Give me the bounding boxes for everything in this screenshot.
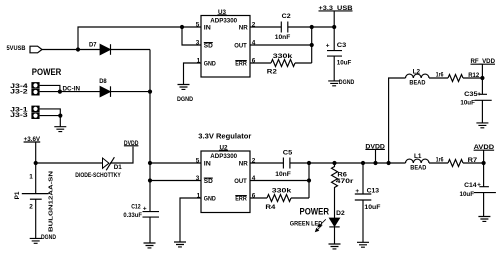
node RF_VDD junction [480, 76, 484, 80]
resistor R6 [332, 163, 354, 189]
svg-text:C3: C3 [337, 42, 347, 49]
net label DVDD (rail) [365, 143, 385, 163]
svg-text:R2: R2 [267, 69, 277, 76]
inductor L2 [406, 68, 430, 86]
wire U3 NR to C2 [250, 26, 281, 28]
resistor R2 [267, 53, 295, 76]
svg-text:R4: R4 [265, 204, 275, 211]
svg-text:C12: C12 [131, 204, 141, 211]
svg-text:D7: D7 [89, 42, 97, 49]
svg-text:J3-3: J3-3 [10, 113, 28, 119]
net label RF_VDD [471, 58, 496, 78]
svg-text:0.33uF: 0.33uF [123, 212, 142, 219]
wire R6 to D2 [334, 189, 336, 218]
ground U2 [174, 242, 186, 247]
node DC-IN junction [58, 90, 62, 94]
wire L2 to R12 [429, 77, 448, 79]
pin 5 IN [196, 157, 211, 167]
node bus-U2 SD junction [148, 178, 152, 182]
net label AVDD [474, 144, 495, 163]
connector tag 5VUSB [7, 45, 43, 53]
capacitor C35 [460, 78, 491, 123]
pin 4 OUT [234, 39, 256, 49]
svg-text:1r6: 1r6 [436, 71, 444, 78]
node bus-D8 junction [148, 90, 152, 94]
pin 6 ERR [235, 57, 256, 67]
wire J3-2 to DC-IN node [40, 91, 60, 93]
ground C35 [476, 123, 488, 128]
op-amp U3 ADP3300 regulator body [201, 10, 250, 77]
wire 5VUSB to D7 [42, 49, 100, 51]
svg-text:10uF: 10uF [460, 99, 475, 106]
pin 2 NR [239, 21, 256, 31]
svg-text:NR: NR [239, 25, 248, 32]
svg-text:3: 3 [196, 39, 200, 46]
wire C2 to +3.3_USB tap [288, 26, 334, 28]
svg-text:C2: C2 [282, 13, 291, 20]
wire R7 to AVDD node [463, 162, 484, 164]
node AVDD junction [482, 161, 486, 165]
svg-text:BEAD: BEAD [410, 164, 426, 171]
diode D8 [99, 78, 110, 97]
pin 5 IN [196, 21, 211, 31]
pin 1 GND [197, 192, 217, 202]
ground P1 DGND [30, 234, 57, 243]
node 5VUSB junction [76, 47, 80, 51]
svg-text:IN: IN [204, 25, 211, 32]
connector J3-4 [10, 82, 39, 90]
svg-text:330k: 330k [273, 53, 293, 60]
resistor R7 [436, 156, 478, 166]
capacitor C13 [355, 163, 381, 242]
node OUT-NR junction (U2) [307, 161, 311, 165]
svg-text:POWER: POWER [300, 205, 330, 216]
svg-text:+: + [477, 181, 481, 188]
svg-text:10uF: 10uF [364, 204, 380, 211]
pin 2 NR [239, 157, 256, 167]
svg-text:1: 1 [29, 174, 33, 181]
node U3 input junction [180, 25, 184, 29]
wire OUT-NR vertical link (U2) [308, 163, 310, 198]
ground J3 [54, 116, 66, 132]
LED D2 [315, 210, 345, 232]
net label DVDD (at D1) [124, 140, 139, 147]
pin 6 ERR [235, 192, 256, 202]
wire D7 to bus [111, 49, 151, 51]
node U2 OUT junction [307, 178, 311, 182]
svg-text:10uF: 10uF [337, 59, 352, 66]
svg-text:+: + [326, 43, 330, 50]
resistor R12 [436, 71, 480, 81]
svg-text:P1: P1 [14, 191, 21, 199]
node NR-OUT junction [310, 25, 314, 29]
diode D1 schottky [103, 157, 123, 171]
pin 3 SD [196, 39, 213, 49]
svg-text:ERR: ERR [235, 61, 247, 68]
svg-text:2: 2 [29, 204, 33, 211]
node J3 ground junction [58, 114, 62, 118]
svg-text:3.3V Regulator: 3.3V Regulator [198, 134, 251, 141]
connector J3-2 [10, 89, 39, 96]
connector J3-3 [10, 112, 39, 119]
svg-text:470r: 470r [336, 178, 354, 185]
svg-text:J3-2: J3-2 [10, 90, 28, 96]
svg-text:5: 5 [196, 157, 200, 164]
svg-text:IN: IN [204, 161, 211, 168]
svg-text:D8: D8 [99, 78, 107, 85]
pin 1 GND [197, 57, 217, 67]
svg-text:NR: NR [239, 161, 248, 168]
svg-text:ADP3300: ADP3300 [210, 153, 237, 160]
wire DC-IN to D8 [60, 91, 100, 93]
svg-text:DGND: DGND [339, 79, 355, 86]
ground C13 [357, 242, 369, 247]
svg-text:10nF: 10nF [275, 34, 291, 41]
svg-text:D1: D1 [114, 164, 122, 171]
net label +3.6V [24, 136, 41, 163]
wire U3 ERR to R2 [250, 62, 271, 64]
svg-text:GREEN LED: GREEN LED [290, 220, 323, 227]
battery P1 [14, 163, 54, 238]
capacitor C12 [123, 204, 159, 243]
wire L2 riser [389, 78, 406, 163]
svg-text:1r6: 1r6 [436, 156, 444, 163]
wire J3-1 to ground node [40, 109, 61, 116]
wire bus to U2 IN [150, 162, 201, 164]
svg-text:C5: C5 [283, 150, 293, 157]
svg-text:10nF: 10nF [275, 171, 291, 178]
svg-text:BEAD: BEAD [409, 79, 425, 86]
svg-text:SD: SD [204, 43, 213, 50]
wire D8 to bus [111, 91, 151, 93]
svg-text:OUT: OUT [234, 178, 247, 185]
wire R4 to OUT link [291, 197, 309, 199]
svg-text:DIODE-SCHOTTKY: DIODE-SCHOTTKY [75, 172, 121, 179]
node OUT junction [310, 43, 314, 47]
wire U2 ERR to R4 [250, 197, 267, 199]
svg-text:BULGN12AA-SN: BULGN12AA-SN [48, 171, 54, 232]
svg-text:POWER: POWER [32, 66, 62, 77]
svg-text:3: 3 [196, 175, 200, 182]
wire U3 GND to ground [184, 63, 202, 85]
wire U2 OUT [250, 180, 309, 182]
node battery junction [34, 161, 38, 165]
wire R12 to RF_VDD node [463, 77, 482, 79]
svg-text:10uF: 10uF [460, 191, 475, 198]
svg-text:C14: C14 [464, 182, 477, 189]
wire OUT-NR vertical link [311, 27, 313, 63]
node C13 tap [361, 161, 365, 165]
wire D2 to ground [334, 227, 336, 244]
capacitor C3 [326, 27, 352, 81]
pin 4 OUT [234, 175, 256, 185]
net label +3.3_USB [319, 5, 353, 27]
ground U3 DGND [177, 85, 193, 104]
svg-text:GND: GND [204, 196, 216, 203]
svg-text:5: 5 [196, 21, 200, 28]
svg-text:SD: SD [204, 178, 213, 185]
node C3 tap junction [332, 25, 336, 29]
wire J3-3 to ground node [40, 115, 61, 117]
ground C3 DGND [328, 79, 354, 86]
wire drop to U3 SD [182, 27, 201, 45]
capacitor C5 [275, 150, 292, 178]
svg-text:OUT: OUT [234, 43, 247, 50]
wire L1 to R7 [429, 162, 448, 164]
ground C14 [478, 217, 490, 222]
ground D2 [329, 244, 341, 249]
svg-text:330k: 330k [272, 188, 292, 195]
svg-text:5VUSB: 5VUSB [7, 45, 26, 52]
node bus-U2 IN junction [148, 161, 152, 165]
wire bus to U2 SD [150, 180, 201, 182]
op-amp U2 ADP3300 regulator body [201, 145, 250, 212]
svg-text:ERR: ERR [235, 196, 247, 203]
ground C12 [144, 243, 156, 248]
svg-text:DGND: DGND [177, 96, 193, 103]
connector J3-1 [10, 106, 39, 114]
pin 3 SD [196, 175, 213, 185]
wire U3 OUT [250, 44, 312, 46]
wire J3-4 to DC-IN node [40, 85, 60, 91]
svg-text:ADP3300: ADP3300 [210, 17, 237, 24]
node R6 tap [332, 161, 336, 165]
vertical bus wire (5V rail down to U2) [149, 50, 151, 212]
svg-text:GND: GND [204, 61, 216, 68]
svg-text:C35: C35 [464, 91, 478, 98]
wire riser and top rail to U3 IN [78, 27, 201, 50]
wire U2 NR to C5 [250, 162, 283, 164]
resistor R4 [265, 188, 292, 211]
wire +3.6V to D1 [36, 162, 103, 164]
wire U2 GND to ground [180, 198, 201, 242]
node L2 riser junction [387, 161, 391, 165]
wire R2 to OUT link [295, 62, 312, 64]
capacitor C2 [275, 13, 291, 41]
wire D1 to DVDD [110, 147, 133, 163]
diode D7 [89, 42, 111, 55]
wire C5 to DVDD rail [290, 162, 406, 164]
svg-text:D2: D2 [336, 210, 345, 217]
node DVDD tick junction [373, 161, 377, 165]
capacitor C14 [460, 163, 496, 217]
svg-text:DGND: DGND [41, 234, 56, 241]
inductor L1 [406, 153, 430, 171]
